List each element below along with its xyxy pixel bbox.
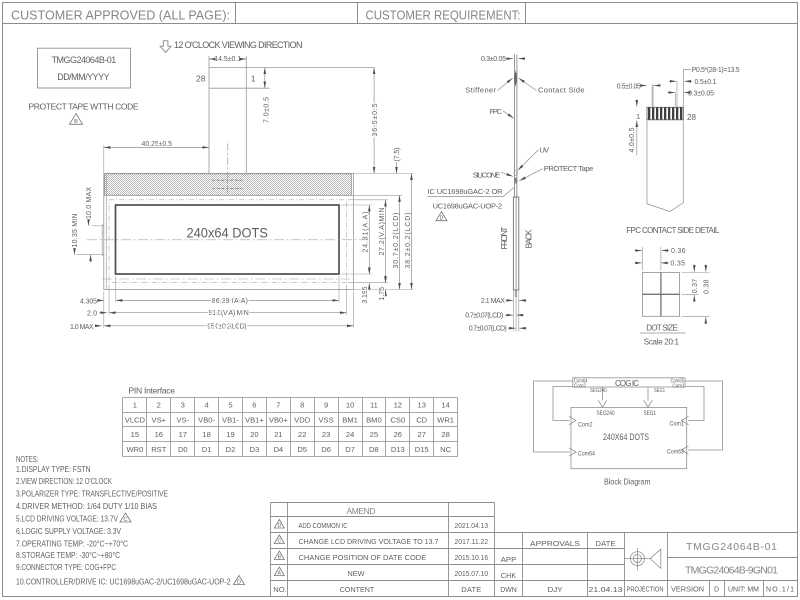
dim 7.0±0.5 [264, 68, 266, 89]
0.7 top glass arrows [505, 314, 513, 316]
svg-text:VB0-: VB0- [198, 415, 215, 424]
dim 3.195 outside arrows [368, 267, 370, 275]
svg-text:VB1+: VB1+ [245, 415, 264, 424]
2.1 MAX arrows [506, 299, 514, 301]
0.38 arrows [705, 265, 707, 272]
svg-text:1.DISPLAY TYPE: FSTN: 1.DISPLAY TYPE: FSTN [16, 464, 91, 474]
svg-text:DD/MM/YYYY: DD/MM/YYYY [57, 72, 109, 82]
svg-text:Contact Side: Contact Side [538, 86, 585, 95]
svg-text:6: 6 [252, 401, 256, 410]
svg-text:0.3±0.05: 0.3±0.05 [481, 56, 506, 63]
svg-text:FRONT: FRONT [499, 227, 509, 250]
svg-text:11: 11 [370, 401, 378, 410]
svg-text:2017.11.22: 2017.11.22 [455, 537, 489, 546]
svg-text:SEG240: SEG240 [590, 388, 607, 394]
svg-text:12: 12 [394, 401, 402, 410]
FPC tail front view [209, 56, 374, 174]
svg-text:VERSION: VERSION [671, 587, 704, 594]
left elastomer bump [102, 224, 104, 256]
svg-text:DJY: DJY [548, 585, 563, 594]
svg-text:Com2: Com2 [574, 383, 586, 389]
svg-text:14.5±0.1: 14.5±0.1 [214, 56, 241, 63]
svg-text:NO.1/1: NO.1/1 [766, 587, 794, 594]
svg-text:0.5±0.1: 0.5±0.1 [695, 79, 717, 86]
svg-text:86.39 (A.A): 86.39 (A.A) [212, 298, 248, 305]
pitch leader [684, 69, 691, 106]
svg-text:27: 27 [417, 430, 425, 439]
seg240 hollow arrowhead [598, 400, 607, 407]
svg-text:Com1: Com1 [673, 383, 685, 389]
com64 hollow arrowhead [569, 448, 576, 456]
amend header [347, 506, 376, 516]
svg-text:1: 1 [133, 401, 137, 410]
svg-text:27.2(V.A)MIN: 27.2(V.A)MIN [379, 208, 386, 256]
svg-text:3: 3 [181, 401, 185, 410]
projection symbol [625, 548, 661, 570]
svg-text:28: 28 [441, 430, 449, 439]
svg-text:40.25±0.5: 40.25±0.5 [142, 141, 173, 148]
bottom row labels [627, 587, 795, 594]
contact side leader [519, 78, 537, 90]
svg-text:0.3±0.05: 0.3±0.05 [688, 90, 714, 97]
svg-text:D: D [237, 579, 241, 585]
svg-text:D2: D2 [226, 445, 236, 454]
dim 4.0 upper stub [636, 100, 638, 107]
svg-text:CS0: CS0 [390, 415, 405, 424]
svg-text:21: 21 [274, 430, 282, 439]
svg-text:2015.10.16: 2015.10.16 [455, 553, 489, 562]
svg-text:7.OPERATING TEMP: -20°C~+70°C: 7.OPERATING TEMP: -20°C~+70°C [16, 538, 128, 548]
revision triangle D in side view [436, 212, 447, 222]
com2 hollow arrowhead [569, 416, 576, 424]
svg-text:CUSTOMER REQUIREMENT:: CUSTOMER REQUIREMENT: [366, 8, 521, 23]
svg-text:10.0 MAX: 10.0 MAX [86, 187, 93, 219]
dim line 30.7 [399, 195, 401, 289]
svg-text:D5: D5 [297, 445, 307, 454]
wire com65 outer right [685, 381, 723, 450]
protect tape leader [519, 169, 542, 181]
svg-text:D15: D15 [415, 445, 429, 454]
grid extension lines up [642, 247, 644, 271]
svg-text:95.0±0.2(LCD): 95.0±0.2(LCD) [207, 323, 246, 330]
svg-text:30.7±0.2(LCD): 30.7±0.2(LCD) [393, 213, 400, 269]
FPC leader [503, 111, 514, 119]
part number 2 [685, 564, 778, 576]
tail below body [505, 290, 527, 332]
0.37 arrows [693, 265, 695, 272]
svg-text:PROTECT TAPE WTTH CODE: PROTECT TAPE WTTH CODE [29, 101, 139, 111]
svg-text:0.5±0.05: 0.5±0.05 [617, 83, 641, 90]
svg-text:10.CONTROLLER/DRIVE IC: UC1698: 10.CONTROLLER/DRIVE IC: UC1698uGAC-2/UC1… [16, 576, 231, 586]
svg-text:C: C [124, 517, 128, 523]
svg-text:(7.5): (7.5) [394, 148, 401, 162]
svg-text:0.7±0.07(LCD): 0.7±0.07(LCD) [465, 313, 503, 320]
LCD glass outline [104, 174, 354, 290]
svg-text:NO.: NO. [273, 585, 287, 594]
svg-text:7.0±0.5: 7.0±0.5 [264, 97, 271, 123]
svg-text:D: D [714, 587, 719, 594]
svg-text:P0.5*(28-1)=13.5: P0.5*(28-1)=13.5 [692, 67, 740, 74]
svg-text:6.LOGIC SUPPLY VOLTAGE: 3.3V: 6.LOGIC SUPPLY VOLTAGE: 3.3V [16, 526, 121, 536]
svg-text:PIN Interface: PIN Interface [129, 385, 176, 395]
svg-text:Stiffener: Stiffener [465, 86, 496, 95]
svg-text:12 O'CLOCK VIEWING DIRECTION: 12 O'CLOCK VIEWING DIRECTION [174, 40, 303, 50]
svg-text:SEG1: SEG1 [644, 410, 657, 417]
svg-text:5: 5 [228, 401, 232, 410]
svg-text:COG IC: COG IC [615, 379, 639, 388]
0.35 arrows [635, 262, 642, 264]
svg-text:0.36: 0.36 [671, 248, 686, 255]
svg-text:14: 14 [441, 401, 449, 410]
header divider 2 [357, 3, 359, 24]
svg-text:FPC: FPC [490, 107, 503, 116]
svg-text:UV: UV [540, 145, 550, 154]
svg-text:WR0: WR0 [126, 445, 143, 454]
IC pin labels [574, 378, 685, 394]
svg-text:8: 8 [300, 401, 304, 410]
contact pins band [647, 107, 683, 120]
svg-text:24.31(A.A): 24.31(A.A) [362, 212, 369, 253]
svg-text:7: 7 [276, 401, 280, 410]
wire com2 inner left [553, 387, 573, 421]
svg-text:0.38: 0.38 [704, 279, 711, 294]
A.A thick rectangle [116, 205, 340, 274]
svg-text:CONTENT: CONTENT [340, 585, 375, 594]
svg-text:13: 13 [417, 401, 425, 410]
svg-text:15: 15 [131, 430, 139, 439]
svg-text:3.195: 3.195 [362, 286, 369, 303]
svg-text:4.DRIVER METHOD: 1/64 DUTY 1/1: 4.DRIVER METHOD: 1/64 DUTY 1/10 BIAS [16, 501, 157, 511]
svg-text:VS-: VS- [176, 415, 189, 424]
svg-text:D8: D8 [369, 445, 379, 454]
dot grid [643, 273, 680, 317]
svg-text:CHANGE LCD DRIVING VOLTAGE TO: CHANGE LCD DRIVING VOLTAGE TO 13.7 [299, 537, 439, 546]
title underline [640, 332, 686, 334]
svg-text:10.35 MIN: 10.35 MIN [72, 214, 79, 248]
svg-text:BM1: BM1 [342, 415, 358, 424]
0.7 bottom glass arrows [508, 327, 516, 329]
svg-text:Com2: Com2 [578, 421, 593, 428]
svg-text:Scale 20:1: Scale 20:1 [644, 337, 680, 346]
header divider 1 [235, 3, 237, 24]
right side vertical dims [369, 68, 411, 298]
svg-text:DOT SIZE: DOT SIZE [646, 323, 678, 332]
svg-text:D13: D13 [391, 445, 405, 454]
UV leader [518, 150, 539, 171]
svg-text:SEG240: SEG240 [597, 410, 615, 417]
svg-text:D3: D3 [250, 445, 260, 454]
svg-text:D7: D7 [345, 445, 355, 454]
dim 4.0 lower line [636, 121, 638, 156]
svg-text:TMGG24064B-01: TMGG24064B-01 [52, 55, 117, 65]
COG IC box [573, 378, 685, 387]
dim 14.5±0.1 [209, 58, 246, 60]
DOTS box labels [578, 410, 684, 457]
bottom width dims [104, 300, 354, 325]
svg-text:16: 16 [155, 430, 163, 439]
dim line 38.2 [411, 174, 413, 290]
svg-text:D0: D0 [178, 445, 188, 454]
rev D triangle [274, 520, 284, 529]
svg-text:1.75: 1.75 [379, 287, 386, 301]
svg-text:1: 1 [251, 74, 256, 84]
svg-text:D: D [440, 216, 444, 222]
hidden contact area under tape (dashed) [212, 179, 244, 181]
rev C triangle [274, 535, 284, 544]
svg-text:26: 26 [394, 430, 402, 439]
dim line 24.31 [368, 205, 370, 274]
svg-text:2.1 MAX: 2.1 MAX [481, 298, 505, 305]
svg-text:28: 28 [687, 113, 696, 122]
svg-text:Com63: Com63 [667, 448, 684, 455]
stiffener fold wedge [514, 70, 517, 87]
com63 hollow arrowhead [682, 446, 689, 454]
svg-text:19: 19 [226, 430, 234, 439]
dim line 27.2 [385, 200, 387, 283]
svg-text:5.LCD DRIVING VOLTAGE: 13.7V: 5.LCD DRIVING VOLTAGE: 13.7V [16, 514, 118, 524]
svg-text:2: 2 [157, 401, 161, 410]
svg-text:SEG1: SEG1 [654, 388, 665, 394]
dim line 86.39 [116, 299, 339, 301]
bottom extension lines [104, 276, 354, 328]
header text: customer requirement [366, 8, 521, 23]
seg1 wire down [647, 387, 649, 401]
viewing direction arrow icon [160, 41, 171, 53]
right side extension lines [341, 174, 414, 290]
svg-text:2021.04.13: 2021.04.13 [455, 521, 489, 530]
svg-text:NEW: NEW [348, 569, 366, 578]
FPC tail side lines [514, 55, 517, 198]
svg-text:Block Diagram: Block Diagram [604, 477, 651, 487]
svg-text:DATE: DATE [461, 585, 481, 594]
svg-text:8.STORAGE TEMP: -30°C~+80°C: 8.STORAGE TEMP: -30°C~+80°C [16, 550, 120, 560]
0.5±0.1 leader [669, 80, 676, 82]
header divider 3 [525, 3, 527, 24]
svg-text:D4: D4 [273, 445, 283, 454]
svg-text:ADD COMMON IC: ADD COMMON IC [299, 521, 348, 530]
svg-text:NC: NC [440, 445, 451, 454]
dim (7.5) stub arrow [396, 162, 398, 174]
svg-text:25: 25 [370, 430, 378, 439]
svg-text:2015.07.10: 2015.07.10 [455, 569, 489, 578]
com1 hollow arrowhead [682, 416, 689, 424]
svg-text:AMEND: AMEND [347, 506, 376, 516]
svg-text:VSS: VSS [318, 415, 333, 424]
svg-text:CD: CD [416, 415, 427, 424]
svg-text:1.0 MAX: 1.0 MAX [70, 324, 94, 331]
svg-text:RST: RST [151, 445, 167, 454]
svg-text:TMGG24064B-9GN01: TMGG24064B-9GN01 [685, 564, 778, 576]
svg-text:D: D [277, 523, 281, 529]
svg-text:BM0: BM0 [366, 415, 382, 424]
seg240 wire down [602, 387, 604, 401]
triangle C after note 5 [120, 513, 131, 523]
svg-text:BACK: BACK [524, 229, 534, 248]
svg-text:22: 22 [298, 430, 306, 439]
svg-text:36.5±0.5: 36.5±0.5 [372, 103, 379, 136]
model/date box top-left [38, 48, 131, 88]
svg-text:28: 28 [196, 74, 206, 84]
svg-text:91.0(V.A) MIN: 91.0(V.A) MIN [209, 310, 249, 317]
vertical centerline of tail [227, 144, 229, 197]
svg-text:0.35: 0.35 [671, 260, 686, 267]
svg-text:D6: D6 [321, 445, 331, 454]
svg-text:17: 17 [179, 430, 187, 439]
svg-text:4: 4 [204, 401, 208, 410]
lower dash-dot line [102, 278, 353, 280]
svg-text:CUSTOMER APPROVED (ALL PAGE):: CUSTOMER APPROVED (ALL PAGE): [11, 8, 230, 23]
silicone dab [514, 178, 518, 184]
rev A triangle [274, 567, 284, 576]
svg-text:APP: APP [501, 555, 517, 564]
dim 0.3±0.05 arrows [507, 58, 513, 60]
dim line 95.0 [104, 325, 354, 327]
svg-text:240x64 DOTS: 240x64 DOTS [187, 225, 269, 241]
dim 40.25±0.5 [104, 146, 209, 148]
svg-text:4.0±0.5: 4.0±0.5 [629, 127, 636, 152]
V.A dash-dot rectangle [109, 200, 347, 283]
svg-text:IC UC1698uGAC-2 OR: IC UC1698uGAC-2 OR [428, 187, 504, 196]
svg-text:DATE: DATE [596, 539, 616, 548]
svg-text:1: 1 [636, 112, 640, 121]
header bar bottom line [3, 23, 798, 25]
svg-text:4.305: 4.305 [80, 299, 97, 306]
stiffener leader [498, 78, 513, 90]
svg-text:9.CONNECTOR TYPE: COG+FPC: 9.CONNECTOR TYPE: COG+FPC [16, 562, 116, 572]
header text: customer approved [11, 8, 230, 23]
0.3±0.05 leader [668, 92, 676, 94]
svg-text:0.37: 0.37 [692, 279, 699, 294]
IC label underline leader [428, 188, 514, 197]
svg-text:UC1698uGAC-UOP-2: UC1698uGAC-UOP-2 [433, 202, 503, 211]
revision triangle B under protect tape note [70, 114, 83, 126]
silicone leader [501, 172, 513, 176]
horizontal centerline [87, 239, 368, 241]
uv dab [514, 170, 518, 175]
svg-text:WR1: WR1 [437, 415, 454, 424]
svg-text:2.VIEW DIRECTION: 12 O'CLOCK: 2.VIEW DIRECTION: 12 O'CLOCK [16, 476, 112, 486]
svg-text:FPC CONTACT SIDE DETAIL: FPC CONTACT SIDE DETAIL [626, 226, 720, 235]
svg-text:VB0+: VB0+ [269, 415, 288, 424]
wire com64 outer left [534, 381, 573, 452]
svg-text:0.7±0.07(LCD): 0.7±0.07(LCD) [469, 326, 507, 333]
right extension lines [682, 272, 710, 274]
svg-text:VB1-: VB1- [222, 415, 239, 424]
svg-text:Com64: Com64 [578, 450, 595, 457]
tail right edge [245, 56, 247, 174]
240X64 DOTS box [571, 407, 687, 468]
glass separation line [515, 197, 517, 290]
tail left edge [208, 56, 210, 174]
svg-text:PROJECTION: PROJECTION [627, 587, 664, 594]
dim 1.75 outside arrows [385, 276, 387, 284]
svg-text:CHK: CHK [501, 571, 517, 580]
svg-text:10: 10 [346, 401, 354, 410]
contact band bottom line [209, 87, 270, 89]
svg-text:Com1: Com1 [670, 420, 685, 427]
left side dims 10.0 MAX / 10.35 MIN [88, 220, 90, 226]
svg-text:24: 24 [346, 430, 354, 439]
svg-text:B: B [74, 119, 78, 125]
svg-text:VLCD: VLCD [125, 415, 146, 424]
seg1 hollow arrowhead [644, 400, 653, 407]
0.5±0.05 arrow [641, 85, 647, 87]
svg-text:38.2±0.2(LCD): 38.2±0.2(LCD) [405, 213, 412, 269]
amend table horizontals [271, 502, 495, 504]
svg-text:VDD: VDD [294, 415, 311, 424]
svg-text:2.0: 2.0 [87, 311, 97, 318]
rev B triangle [274, 551, 284, 560]
FPC body with torn bottom edge [647, 120, 683, 212]
0.36 arrows [635, 250, 642, 252]
svg-text:D1: D1 [202, 445, 212, 454]
amend rows text [273, 521, 622, 594]
svg-text:20: 20 [250, 430, 258, 439]
LCD body side view [513, 197, 518, 290]
svg-text:18: 18 [202, 430, 210, 439]
TMGG divider [668, 557, 798, 559]
svg-text:23: 23 [322, 430, 330, 439]
wire com1 inner right [685, 387, 704, 421]
tail top edge + extension to right dims [209, 67, 374, 69]
extension lines down [512, 290, 514, 332]
pin table grid [123, 398, 458, 457]
svg-text:240X64 DOTS: 240X64 DOTS [603, 432, 649, 442]
svg-text:DWN: DWN [500, 585, 517, 594]
svg-text:NOTES:: NOTES: [16, 454, 39, 464]
svg-text:APPROVALS: APPROVALS [530, 539, 580, 548]
svg-text:TMGG24064B-01: TMGG24064B-01 [686, 541, 777, 553]
svg-text:SILICONE: SILICONE [473, 170, 501, 179]
LCD left inner edge line [105, 174, 107, 290]
protect tape hatched band [104, 174, 351, 196]
svg-text:9: 9 [324, 401, 328, 410]
amend table verticals [270, 503, 272, 597]
svg-text:CHANGE POSITION OF DATE CODE: CHANGE POSITION OF DATE CODE [299, 553, 427, 562]
svg-text:PROTECT Tape: PROTECT Tape [544, 164, 594, 173]
pin table texts [125, 401, 454, 454]
dim line 91.0 [109, 312, 347, 314]
dim line 36.5 [373, 68, 375, 174]
svg-text:UNIT: MM: UNIT: MM [728, 587, 759, 594]
svg-text:21.04.13: 21.04.13 [589, 585, 623, 594]
svg-text:C: C [277, 538, 281, 544]
triangle D after note 10 [234, 576, 245, 586]
part number 1 [686, 541, 777, 553]
svg-text:VS+: VS+ [152, 415, 167, 424]
svg-text:3.POLARIZER TYPE: TRANSFLECTIV: 3.POLARIZER TYPE: TRANSFLECTIVE/POSITIVE [16, 488, 168, 498]
